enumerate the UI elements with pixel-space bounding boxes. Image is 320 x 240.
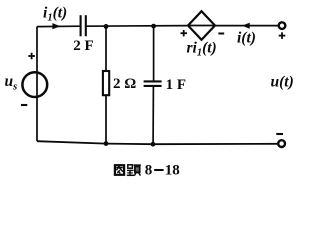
wire through diamond — [188, 25, 215, 27]
svg-text:18: 18 — [165, 163, 180, 179]
node dot D — [151, 142, 156, 147]
dependent source U1 diamond — [188, 11, 215, 40]
capacitor C1 2F plates — [80, 15, 82, 36]
minus sign of us — [21, 104, 27, 106]
wire top-left segment — [37, 25, 81, 27]
svg-text:2 Ω: 2 Ω — [113, 76, 136, 92]
wire top-right segment — [215, 25, 279, 27]
minus sign of u(t) — [276, 133, 283, 135]
plus sign of dependent source — [181, 32, 188, 34]
svg-text:8: 8 — [145, 163, 153, 179]
plus sign of u(t) — [279, 35, 286, 37]
plus sign of us — [28, 55, 35, 57]
svg-text:us: us — [5, 73, 18, 92]
arrow for current i1(t) — [52, 23, 60, 29]
svg-text:2 F: 2 F — [73, 38, 93, 54]
minus sign of dependent source — [218, 33, 224, 35]
svg-text:i1(t): i1(t) — [43, 5, 67, 24]
node dot A — [104, 24, 109, 29]
caption glyph tu (figure) — [115, 165, 124, 175]
svg-text:1 F: 1 F — [166, 77, 186, 93]
node dot C — [104, 141, 109, 146]
terminal bottom-right — [278, 140, 285, 147]
capacitor C2 1F lower wire — [152, 86, 154, 144]
svg-text:i(t): i(t) — [237, 30, 256, 47]
capacitor C2 1F upper wire — [153, 26, 155, 81]
left wire — [36, 27, 38, 142]
svg-text:u(t): u(t) — [271, 74, 294, 91]
voltage source us circle — [22, 72, 47, 97]
wire top-middle segment — [86, 25, 188, 28]
arrow for current i(t) — [242, 23, 250, 29]
bottom wire — [37, 141, 278, 144]
capacitor C2 1F plates — [144, 80, 162, 82]
svg-text:ri1(t): ri1(t) — [187, 39, 217, 58]
caption glyph ti (problem) — [127, 165, 141, 176]
resistor branch upper wire — [105, 26, 107, 70]
node dot B — [151, 24, 156, 29]
terminal top-right — [279, 22, 286, 29]
resistor R 2ohm body — [103, 71, 109, 95]
resistor branch lower wire — [105, 96, 107, 144]
